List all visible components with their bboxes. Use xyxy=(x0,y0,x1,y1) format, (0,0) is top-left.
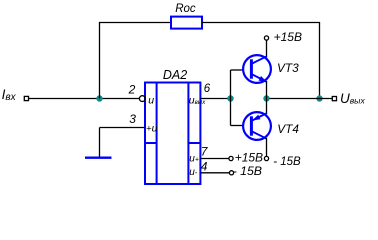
wire base VT4 xyxy=(231,125,244,127)
wire base VT3 xyxy=(231,69,244,71)
wire output xyxy=(267,98,333,100)
resistor Roc xyxy=(171,17,202,29)
terminal pin4 circle xyxy=(229,171,233,175)
wire feedback left xyxy=(100,23,172,99)
svg-text:+15В: +15В xyxy=(274,30,302,44)
wire VT3 collector lead xyxy=(266,40,268,57)
terminal output square xyxy=(332,97,336,101)
node base junction xyxy=(227,95,233,101)
op-amp DA2 body xyxy=(145,83,200,185)
pin 7 wire xyxy=(200,158,229,160)
pin 3 wire xyxy=(100,127,146,129)
svg-text:u: u xyxy=(148,94,154,106)
wire VT4 emitter lead xyxy=(266,99,268,115)
ground bar xyxy=(85,156,112,158)
svg-text:3: 3 xyxy=(129,112,136,126)
svg-text:7: 7 xyxy=(201,145,209,159)
svg-text:u+: u+ xyxy=(189,154,199,165)
svg-text:uвых: uвых xyxy=(189,94,206,106)
ground wire xyxy=(99,128,101,157)
transistor VT4 xyxy=(243,112,271,140)
terminal +15V top circle xyxy=(264,36,268,40)
svg-text:- 15В: - 15В xyxy=(233,164,262,178)
pin 6 wire xyxy=(200,98,230,100)
svg-text:DA2: DA2 xyxy=(163,68,187,82)
svg-text:VT3: VT3 xyxy=(277,61,299,75)
svg-text:2: 2 xyxy=(128,82,136,96)
svg-text:Roc: Roc xyxy=(175,3,196,15)
node input junction xyxy=(96,95,102,101)
svg-text:Iвх: Iвх xyxy=(2,87,17,103)
svg-text:VT4: VT4 xyxy=(277,122,299,136)
terminal pin7 circle xyxy=(229,156,233,160)
svg-text:Uвых: Uвых xyxy=(340,91,365,106)
svg-text:- 15В: - 15В xyxy=(273,156,301,168)
node feedback-output junction xyxy=(316,95,322,101)
svg-text:u-: u- xyxy=(189,167,198,178)
wire VT3 emitter lead xyxy=(266,81,268,99)
svg-text:6: 6 xyxy=(204,83,211,95)
wire feedback right xyxy=(202,23,320,99)
pin 4 wire xyxy=(200,172,229,174)
terminal input square xyxy=(24,96,28,100)
svg-text:+15В: +15В xyxy=(235,150,263,164)
node emitter junction xyxy=(263,95,269,101)
wire VT4 collector lead xyxy=(266,138,268,156)
transistor VT3 xyxy=(243,55,271,83)
svg-text:+u: +u xyxy=(146,122,158,134)
pin 2 bubble xyxy=(139,96,145,102)
wire input xyxy=(29,98,140,100)
wire bases vertical xyxy=(230,70,232,126)
terminal -15V bottom circle xyxy=(264,156,268,160)
svg-text:4: 4 xyxy=(201,159,208,173)
